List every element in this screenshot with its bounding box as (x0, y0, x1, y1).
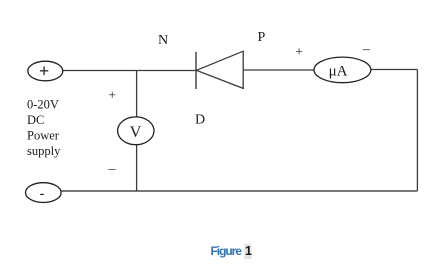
svg-text:N: N (158, 33, 168, 48)
svg-text:μA: μA (329, 64, 348, 80)
svg-text:Figure: Figure (211, 244, 243, 258)
svg-text:0-20V: 0-20V (27, 98, 59, 112)
svg-text:1: 1 (245, 244, 252, 258)
wire: voltmeter branch upper segment (136, 71, 138, 118)
wire: diode anode to microammeter (243, 69, 314, 71)
svg-text:+: + (108, 89, 116, 104)
svg-text:Power: Power (27, 129, 60, 143)
svg-text:supply: supply (27, 144, 61, 158)
microammeter uA (314, 57, 371, 83)
wire: voltmeter branch lower segment (136, 145, 138, 192)
wire: right vertical drop (416, 70, 418, 192)
wire: bottom return wire (61, 190, 417, 192)
diode D triangle (197, 51, 244, 88)
svg-text:–: – (108, 162, 117, 177)
svg-text:P: P (258, 30, 266, 45)
voltmeter V (118, 117, 154, 145)
svg-text:D: D (195, 113, 205, 128)
svg-text:-: - (40, 187, 45, 202)
caption: Figure 1 (211, 244, 253, 259)
svg-text:V: V (130, 124, 142, 141)
power supply + terminal (28, 61, 63, 81)
diode D cathode bar (195, 52, 197, 89)
power supply - terminal (26, 183, 62, 203)
svg-text:DC: DC (27, 113, 44, 127)
svg-text:–: – (362, 42, 371, 57)
wire: microammeter to top-right corner (371, 69, 418, 71)
svg-text:+: + (295, 44, 303, 59)
wire: top wire from + terminal to diode cathode bar (63, 70, 197, 72)
